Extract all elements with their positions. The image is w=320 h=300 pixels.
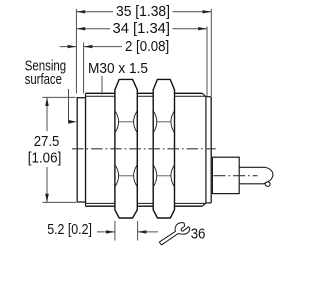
wrench icon (spanner size symbol) (159, 223, 190, 245)
right chamfer bottom (202, 203, 206, 206)
svg-text:2 [0.08]: 2 [0.08] (125, 39, 169, 55)
extension line back face (for 35) (210, 9, 212, 96)
dimension 35 [1.38] (76, 11, 211, 13)
svg-text:27.5: 27.5 (34, 134, 60, 150)
extension line housing step (for 34) (206, 27, 208, 97)
cable break symbol (264, 167, 273, 186)
dimension 5.2 [0.2] (97, 221, 158, 241)
barrel thread minor lines (86, 96, 206, 203)
back ring top edge (206, 96, 211, 98)
svg-text:35 [1.38]: 35 [1.38] (116, 4, 170, 20)
step face (205, 97, 207, 203)
back face (210, 97, 212, 203)
cable gland (212, 157, 239, 193)
svg-text:M30 x 1.5: M30 x 1.5 (88, 61, 148, 77)
wire: cable centerline (dash-dot) (214, 175, 258, 177)
svg-text:surface: surface (25, 72, 62, 88)
extension line cap left face (for 35/34/2) (75, 9, 77, 94)
wire: body centerline (dash-dot) (72, 148, 216, 150)
barrel thread major lines (86, 93, 203, 206)
right chamfer top (202, 93, 206, 96)
hex nut 1 (115, 79, 137, 218)
dimension 27.5 [1.06] (43, 97, 77, 202)
cable (239, 166, 265, 168)
barrel left end face (85, 93, 87, 206)
hex nut 2 (153, 79, 174, 218)
dimension 34 [1.34] (76, 28, 207, 30)
svg-text:36: 36 (191, 226, 206, 242)
svg-text:34 [1.34]: 34 [1.34] (113, 21, 171, 37)
extension line cap right face (for 2) (83, 43, 85, 94)
svg-text:[1.06]: [1.06] (28, 151, 62, 167)
sensing face cap (77, 98, 85, 202)
dimension 2 [0.08] (60, 46, 122, 48)
leader M30 (101, 76, 103, 95)
back ring bottom edge (206, 202, 211, 204)
leader sensing surface (68, 89, 71, 122)
svg-text:5.2 [0.2]: 5.2 [0.2] (47, 222, 92, 238)
